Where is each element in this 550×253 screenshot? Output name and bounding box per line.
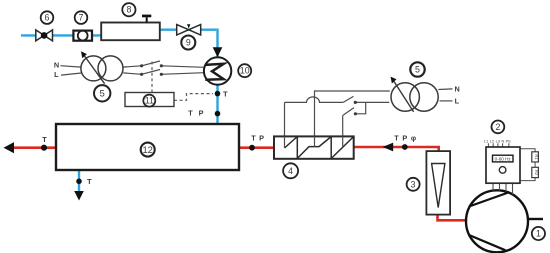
svg-text:3: 3 (411, 179, 416, 189)
svg-text:R2: R2 (534, 170, 539, 176)
svg-text:T: T (42, 135, 47, 144)
svg-text:8: 8 (126, 5, 131, 15)
svg-text:1: 1 (536, 229, 541, 239)
svg-text:6: 6 (45, 13, 50, 23)
svg-text:φ: φ (411, 134, 416, 143)
svg-text:P: P (199, 108, 204, 117)
svg-text:T: T (188, 108, 193, 117)
svg-text:N: N (54, 61, 59, 70)
svg-text:4: 4 (288, 166, 293, 176)
svg-text:2: 2 (495, 122, 500, 132)
svg-text:T: T (251, 134, 256, 143)
svg-text:5: 5 (100, 89, 105, 100)
svg-text:9: 9 (186, 38, 191, 48)
svg-text:11: 11 (145, 96, 154, 106)
svg-text:P: P (402, 133, 407, 142)
svg-text:L: L (455, 96, 460, 105)
svg-text:R1: R1 (534, 154, 539, 160)
svg-text:0-60 Hz: 0-60 Hz (495, 156, 512, 161)
svg-text:7: 7 (79, 13, 84, 23)
svg-text:L1 L2 L3 N PE: L1 L2 L3 N PE (484, 140, 512, 144)
svg-text:P: P (259, 134, 264, 143)
svg-text:T: T (223, 89, 228, 98)
svg-text:T: T (87, 177, 92, 186)
svg-text:12: 12 (142, 144, 152, 155)
svg-text:L: L (54, 70, 59, 79)
svg-text:N: N (455, 84, 460, 93)
svg-text:5: 5 (415, 65, 420, 75)
svg-text:T: T (394, 133, 399, 142)
svg-text:10: 10 (240, 66, 250, 76)
